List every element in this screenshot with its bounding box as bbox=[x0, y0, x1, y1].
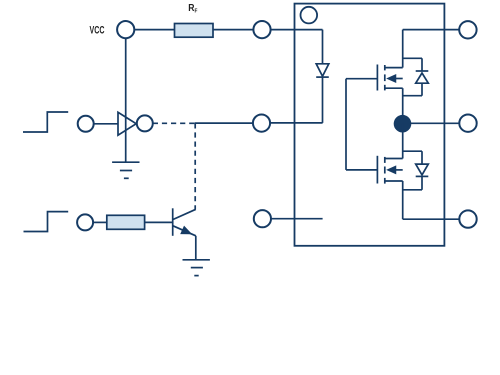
node VCC bbox=[117, 21, 134, 38]
pin circle bbox=[301, 7, 318, 24]
node after Rf bbox=[253, 21, 270, 38]
ground Q1 bbox=[183, 260, 210, 276]
wire input to base resistor bbox=[93, 221, 107, 223]
wire vertical to diode D1 bbox=[322, 30, 324, 64]
wire stub lower left pin bbox=[271, 218, 323, 220]
transistor Q2 top MOSFET bbox=[377, 65, 402, 91]
terminal bottom right bbox=[459, 210, 476, 227]
wire bottom output to terminal bbox=[403, 218, 460, 220]
wire Q2 source vertical to output node bbox=[402, 88, 404, 124]
transistor Q1 bbox=[173, 208, 196, 259]
step input symbol upper bbox=[23, 112, 68, 132]
wire diode D1 to mid rail bbox=[322, 77, 324, 123]
wire gate lead top MOSFET bbox=[346, 78, 377, 80]
wire buffer input bbox=[94, 123, 118, 125]
terminal buffer output bbox=[137, 115, 153, 131]
wire VCC vertical through buffer to ground bbox=[125, 38, 127, 162]
wire VCC node to resistor Rf bbox=[134, 29, 174, 31]
terminal buffer input bbox=[78, 116, 94, 132]
diode D1 bbox=[316, 64, 329, 77]
wire dashed vertical to Q1 collector bbox=[194, 123, 196, 209]
wire resistor Rf to node bbox=[213, 29, 253, 31]
wire Q3 source vertical to bottom lead bbox=[402, 181, 404, 219]
wire gate bus vertical bbox=[345, 79, 347, 170]
body diode Q3 bbox=[403, 151, 429, 190]
terminal mid right bbox=[459, 115, 476, 132]
svg-text:RF: RF bbox=[188, 2, 198, 15]
wire base resistor to Q1 bbox=[145, 221, 173, 223]
wire gate lead bottom MOSFET bbox=[346, 169, 377, 171]
transistor Q3 bottom MOSFET bbox=[377, 156, 402, 184]
wire dashed from buffer output bbox=[153, 122, 195, 124]
wire mid rail to node bbox=[270, 122, 323, 124]
wire Q3 drain vertical from output node bbox=[402, 124, 404, 159]
ground buffer bbox=[112, 162, 139, 178]
wire Q2 drain vertical to top rail bbox=[402, 30, 404, 68]
node mid-left rail bbox=[253, 115, 270, 132]
buffer U1 bbox=[118, 112, 136, 135]
wire node into IC top rail bbox=[271, 29, 323, 31]
wire top rail to terminal bbox=[403, 29, 460, 31]
terminal top right bbox=[459, 21, 476, 38]
step input symbol lower bbox=[24, 212, 69, 232]
IC rectangle U2 bbox=[295, 4, 445, 246]
terminal lower input bbox=[77, 214, 93, 230]
node stub terminal bbox=[254, 210, 271, 227]
body diode Q2 bbox=[403, 58, 429, 95]
wire output to terminal bbox=[411, 122, 460, 124]
resistor base bbox=[107, 215, 145, 229]
svg-text:VCC: VCC bbox=[90, 25, 105, 37]
node output junction bbox=[394, 115, 412, 133]
wire node to dashed junction bbox=[195, 122, 253, 124]
resistor Rf bbox=[175, 24, 214, 38]
